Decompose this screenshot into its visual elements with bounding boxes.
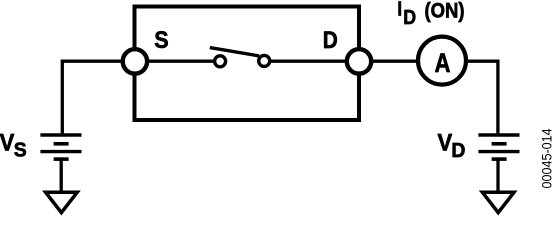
battery VD plate 4 (short): [492, 157, 507, 161]
svg-text:D: D: [323, 25, 338, 53]
terminal S circle: [123, 49, 147, 73]
svg-text:V: V: [0, 128, 15, 155]
svg-text:D: D: [403, 7, 416, 29]
box (switch body outline): [135, 7, 360, 121]
ground arrow left: [46, 192, 78, 212]
svg-text:D: D: [451, 139, 465, 162]
battery VS plate 2 (short): [54, 142, 69, 146]
battery VS plate 1 (long): [40, 133, 81, 136]
battery VS plate 4 (short): [54, 157, 69, 161]
switch left pole circle: [215, 56, 226, 67]
switch blade: [210, 48, 259, 56]
battery VD bottom stub: [496, 159, 499, 191]
wire: D terminal to ammeter: [359, 60, 418, 63]
battery VS bottom stub: [60, 159, 63, 191]
svg-text:00045-014: 00045-014: [539, 128, 555, 188]
battery VS plate 3 (long): [40, 150, 81, 153]
battery VD plate 1 (long): [478, 133, 519, 136]
switch right pole circle: [259, 55, 270, 66]
battery VD plate 3 (long): [478, 150, 519, 153]
wire: ammeter to VD battery: [466, 61, 498, 136]
terminal D circle: [347, 49, 371, 73]
wire: S terminal to switch left pole: [135, 60, 214, 63]
svg-text:S: S: [14, 139, 27, 162]
svg-text:(ON): (ON): [425, 0, 465, 23]
wire left: VS to S terminal: [62, 61, 124, 136]
svg-text:V: V: [438, 128, 453, 155]
wire: switch right pole to D terminal: [271, 60, 360, 63]
battery VD plate 2 (short): [492, 142, 507, 146]
ground arrow right: [482, 192, 514, 212]
ammeter U1 circle: [418, 37, 466, 85]
svg-text:S: S: [154, 26, 168, 54]
svg-text:I: I: [397, 0, 402, 20]
svg-text:A: A: [435, 49, 451, 79]
